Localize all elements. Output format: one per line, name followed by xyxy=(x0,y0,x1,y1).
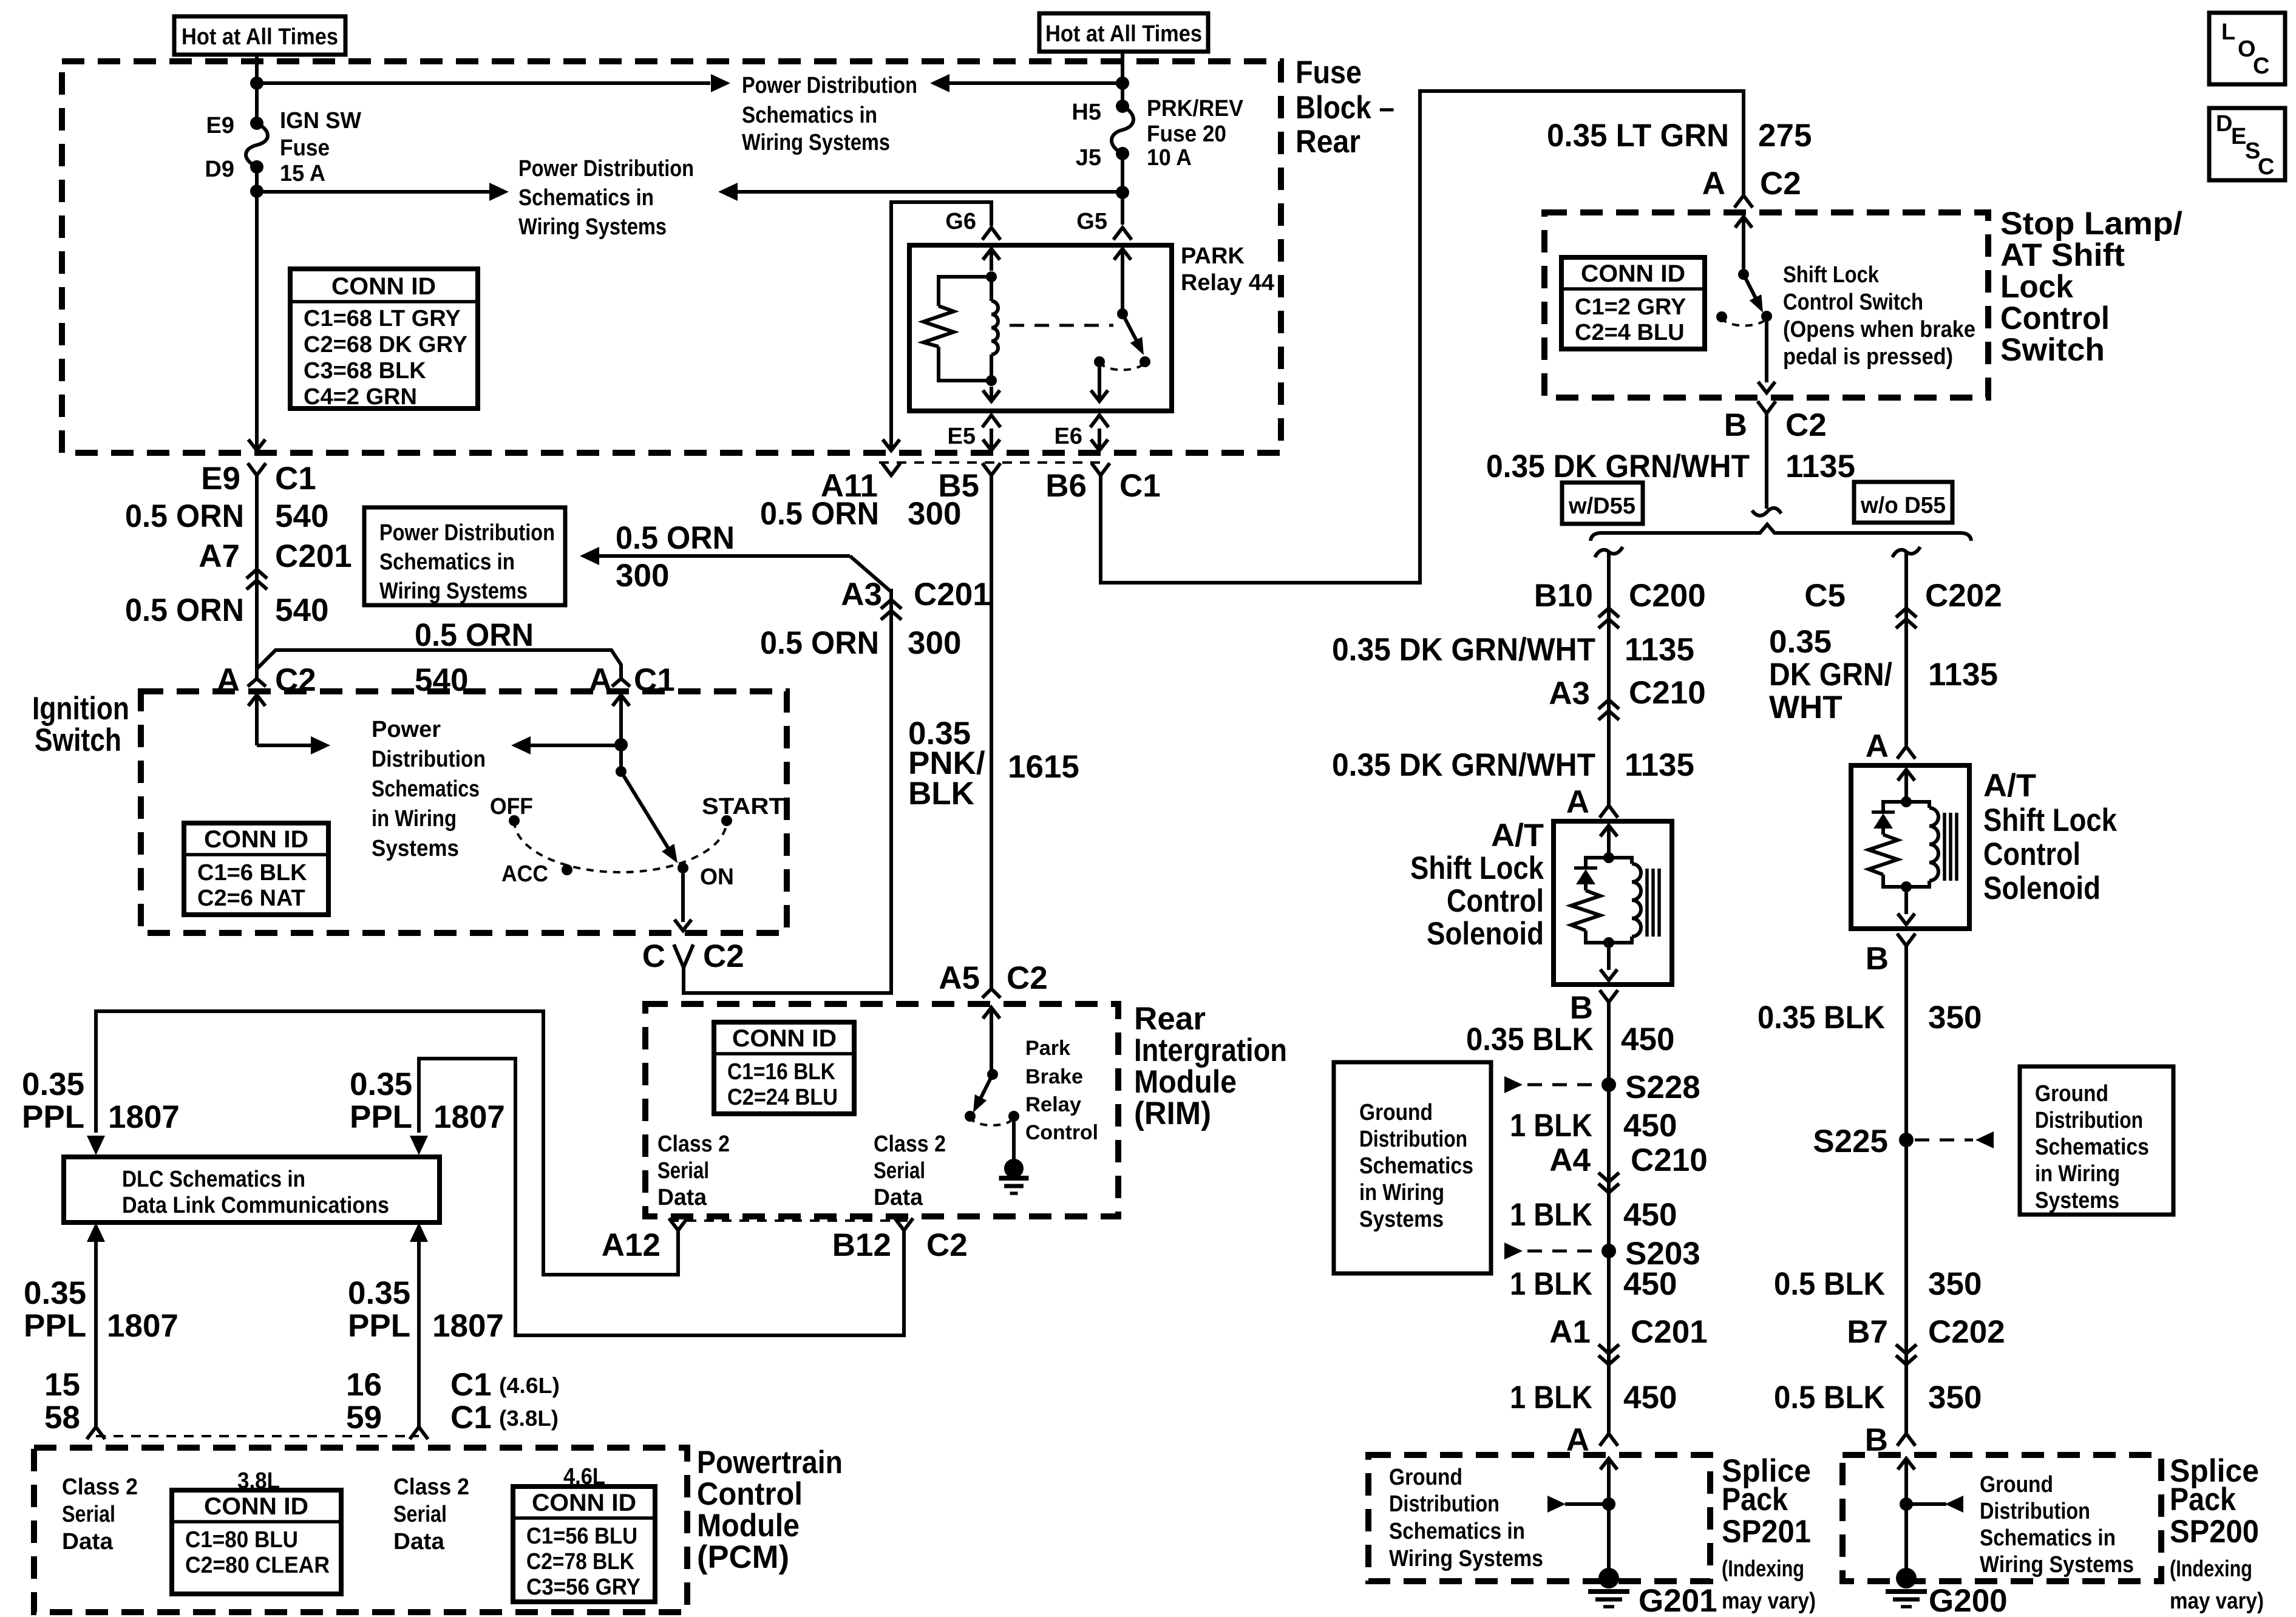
in-line connector C201 terminal A3 (double chevron) xyxy=(881,600,902,609)
svg-text:PPL: PPL xyxy=(24,1308,86,1344)
svg-text:Distribution: Distribution xyxy=(1389,1491,1500,1517)
relay coil winding xyxy=(990,277,993,301)
ignition contact ACC xyxy=(562,864,572,875)
wire 0.35 PNK/BLK 1615 from B5 to RIM A5 xyxy=(990,475,993,989)
svg-text:58: 58 xyxy=(44,1400,80,1436)
relay coil bottom node xyxy=(986,375,997,386)
node junction inside SP200 xyxy=(1900,1497,1913,1511)
svg-text:A: A xyxy=(589,662,612,698)
svg-text:Wiring Systems: Wiring Systems xyxy=(379,578,528,604)
svg-text:C1: C1 xyxy=(450,1400,492,1436)
arrow pin A into SP201 xyxy=(1600,1459,1617,1470)
node junction above G5 xyxy=(1116,186,1129,199)
wire class 2 serial data PCM pin 16/59 to DLC xyxy=(417,1241,421,1427)
connector fork B below right solenoid xyxy=(1897,934,1915,946)
svg-text:pedal is pressed): pedal is pressed) xyxy=(1783,344,1953,370)
svg-text:(4.6L): (4.6L) xyxy=(499,1373,560,1398)
arrowhead left from PRK/REV feed into Power Distribution note xyxy=(930,74,949,92)
svg-text:C3=68 BLK: C3=68 BLK xyxy=(304,358,426,384)
svg-text:C: C xyxy=(642,938,665,974)
svg-text:Pack: Pack xyxy=(1722,1482,1788,1517)
wire branch to relay pin G6 xyxy=(891,202,991,226)
splice pack SP200 dashed box xyxy=(1843,1455,2161,1581)
solenoid A/T shift lock (w/o D55) input pin arrow xyxy=(1898,770,1915,781)
svg-text:Lock: Lock xyxy=(2000,269,2074,305)
arrowhead into DLC box (A12 wire) xyxy=(87,1136,105,1155)
svg-text:A5: A5 xyxy=(939,960,980,996)
wire w/o D55 branch to C202 xyxy=(1904,552,1908,745)
svg-text:0.35: 0.35 xyxy=(22,1066,84,1102)
ignition switch pivot xyxy=(616,766,627,777)
right Ground Distribution reference box xyxy=(2020,1066,2173,1215)
svg-text:0.5 ORN: 0.5 ORN xyxy=(760,496,879,532)
solenoid A/T shift lock (w/D55) coil winding xyxy=(1609,858,1632,864)
svg-text:C2: C2 xyxy=(926,1227,968,1263)
park brake switch dashed arc xyxy=(970,1116,1014,1125)
svg-text:Control: Control xyxy=(1447,883,1544,919)
svg-text:Serial: Serial xyxy=(657,1158,709,1184)
arrowhead left into boxed Power Distribution note xyxy=(580,547,599,565)
ignition contact START xyxy=(721,815,732,826)
connector fork B/C2 below stop lamp switch xyxy=(1758,401,1776,413)
svg-text:0.5 ORN: 0.5 ORN xyxy=(415,617,534,653)
svg-text:w/o D55: w/o D55 xyxy=(1860,493,1946,518)
svg-text:C1=68 LT GRY: C1=68 LT GRY xyxy=(304,306,461,331)
svg-text:E5: E5 xyxy=(948,424,976,449)
svg-text:Power Distribution: Power Distribution xyxy=(379,520,555,546)
connector fork A11 xyxy=(882,463,900,475)
svg-text:C1: C1 xyxy=(450,1367,492,1403)
svg-text:Power Distribution: Power Distribution xyxy=(742,73,917,98)
connector fork PCM pin 15/58 xyxy=(87,1427,105,1439)
stop lamp switch dashed box xyxy=(1544,212,1988,398)
ground symbol (RIM) xyxy=(999,1176,1029,1181)
stop lamp switch pivot xyxy=(1738,269,1749,280)
svg-text:Switch: Switch xyxy=(35,722,121,758)
svg-text:C1: C1 xyxy=(634,662,675,698)
svg-text:DK GRN/: DK GRN/ xyxy=(1769,657,1892,693)
arrowhead right into ignition Power Distribution note xyxy=(311,736,330,754)
arrowhead right into mid Power Distribution note xyxy=(489,183,509,201)
svg-text:C2: C2 xyxy=(703,938,744,974)
svg-text:10 A: 10 A xyxy=(1147,145,1192,171)
relay switch output wire and arrow to E6 xyxy=(1098,367,1101,400)
svg-text:C201: C201 xyxy=(1631,1314,1708,1350)
fuse PRK/REV Fuse 20 10A between H5 and J5 xyxy=(1116,100,1129,113)
svg-text:300: 300 xyxy=(616,558,669,594)
stop lamp contact (left) xyxy=(1716,311,1727,322)
svg-text:1615: 1615 xyxy=(1008,749,1079,785)
svg-text:Data: Data xyxy=(874,1185,923,1210)
relay coil output arrow to E5 xyxy=(990,387,993,400)
svg-text:C1=16 BLK: C1=16 BLK xyxy=(727,1059,835,1085)
svg-text:B10: B10 xyxy=(1534,578,1593,614)
svg-text:Relay: Relay xyxy=(1025,1093,1081,1116)
wire 0.35 BLK 350 from right solenoid to SP200 xyxy=(1904,946,1908,1434)
svg-text:0.5 ORN: 0.5 ORN xyxy=(616,520,735,556)
svg-text:Class 2: Class 2 xyxy=(393,1474,469,1500)
solenoid A/T shift lock (w/D55) diode xyxy=(1586,858,1609,868)
svg-text:Systems: Systems xyxy=(1359,1207,1444,1232)
svg-text:CONN ID: CONN ID xyxy=(204,1493,308,1520)
svg-text:Schematics in: Schematics in xyxy=(518,185,654,211)
svg-text:Systems: Systems xyxy=(2035,1188,2119,1213)
svg-text:Data: Data xyxy=(393,1529,445,1554)
solenoid A/T shift lock (w/D55) box xyxy=(1554,821,1672,985)
solenoid A/T shift lock (w/o D55) diode xyxy=(1883,802,1906,812)
relay switch throw dashed arc xyxy=(1099,362,1145,370)
ground terminal dot G201 xyxy=(1598,1568,1619,1588)
svg-text:C1=6 BLK: C1=6 BLK xyxy=(197,860,307,886)
svg-text:G201: G201 xyxy=(1639,1583,1717,1617)
svg-text:DLC Schematics in: DLC Schematics in xyxy=(122,1167,305,1192)
arrow pin A into ignition switch xyxy=(248,695,265,706)
solenoid A/T shift lock (w/o D55) bottom node xyxy=(1901,881,1912,892)
svg-text:350: 350 xyxy=(1928,1000,1982,1036)
CONN ID table of fuse block xyxy=(290,269,478,408)
wire class 2 serial data from A12 to DLC xyxy=(96,1011,678,1275)
solenoid A/T shift lock (w/o D55) output arrow xyxy=(1904,892,1908,914)
svg-text:Power: Power xyxy=(372,717,441,742)
arrowhead of S225 stub xyxy=(1975,1131,1994,1148)
svg-text:0.35: 0.35 xyxy=(24,1275,86,1311)
wire from ON contact down to C/C2 xyxy=(681,873,685,922)
relay switch contact (normally open) xyxy=(1140,356,1150,367)
svg-text:Wiring Systems: Wiring Systems xyxy=(742,130,890,155)
svg-text:C201: C201 xyxy=(275,538,352,574)
wire from fuse D9 down to fuse block exit xyxy=(255,167,259,448)
svg-text:SP200: SP200 xyxy=(2170,1514,2259,1550)
dashed stub to S203 xyxy=(1527,1250,1600,1253)
svg-text:350: 350 xyxy=(1928,1380,1982,1415)
connector fork B12 below RIM xyxy=(895,1218,913,1230)
svg-text:0.35 DK GRN/WHT: 0.35 DK GRN/WHT xyxy=(1486,449,1750,484)
svg-text:in Wiring: in Wiring xyxy=(1359,1180,1444,1205)
svg-text:B6: B6 xyxy=(1045,468,1087,504)
svg-text:C4=2 GRN: C4=2 GRN xyxy=(304,384,417,410)
wire from G5 junction to mid Power Distribution note xyxy=(738,190,1123,194)
svg-text:E: E xyxy=(2231,124,2246,149)
svg-text:450: 450 xyxy=(1623,1197,1677,1233)
svg-text:Shift Lock: Shift Lock xyxy=(1410,850,1544,886)
option split brace xyxy=(1591,524,1971,541)
svg-text:1135: 1135 xyxy=(1928,657,1998,693)
svg-text:H5: H5 xyxy=(1072,100,1101,125)
svg-text:16: 16 xyxy=(346,1367,382,1403)
svg-text:Power Distribution: Power Distribution xyxy=(518,156,694,181)
left Ground Distribution reference box xyxy=(1334,1062,1491,1273)
svg-text:Wiring Systems: Wiring Systems xyxy=(518,214,667,240)
solenoid A/T shift lock (w/o D55) top node xyxy=(1901,796,1912,807)
connector line C2 below RIM xyxy=(669,1219,913,1222)
arrowhead up into DLC (left PCM wire) xyxy=(87,1222,105,1242)
svg-text:A: A xyxy=(1866,728,1889,764)
solenoid A/T shift lock (w/D55) output arrow xyxy=(1607,948,1611,970)
arrow pin E5 at fuse block exit xyxy=(990,429,993,449)
svg-text:may vary): may vary) xyxy=(2170,1588,2264,1614)
svg-text:PARK: PARK xyxy=(1181,243,1245,269)
svg-text:E9: E9 xyxy=(201,461,240,497)
svg-text:C2=80 CLEAR: C2=80 CLEAR xyxy=(185,1553,330,1578)
svg-text:S228: S228 xyxy=(1625,1070,1700,1105)
svg-text:59: 59 xyxy=(346,1400,382,1436)
svg-text:275: 275 xyxy=(1758,118,1812,154)
svg-text:Hot at All Times: Hot at All Times xyxy=(182,24,338,50)
w/D55 branch start hook xyxy=(1595,547,1623,557)
connector fork G6 xyxy=(982,228,1000,240)
svg-text:Wiring Systems: Wiring Systems xyxy=(1389,1546,1543,1571)
svg-text:1 BLK: 1 BLK xyxy=(1510,1108,1592,1144)
svg-text:A3: A3 xyxy=(841,577,882,612)
svg-text:Schematics: Schematics xyxy=(372,776,480,802)
DESC index box xyxy=(2209,108,2285,180)
solenoid A/T shift lock (w/o D55) coil winding xyxy=(1906,802,1929,808)
svg-text:Shift Lock: Shift Lock xyxy=(1783,262,1880,288)
arrow pin A5 into RIM xyxy=(983,1008,1000,1019)
boxed reference Power Distribution Schematics in Wiring Systems xyxy=(364,507,565,605)
svg-text:0.5 BLK: 0.5 BLK xyxy=(1774,1380,1885,1415)
splice S225 xyxy=(1899,1133,1914,1147)
svg-text:C: C xyxy=(2258,154,2274,180)
svg-text:Control: Control xyxy=(697,1476,803,1512)
connector fork G5 xyxy=(1113,228,1132,240)
svg-text:0.5 BLK: 0.5 BLK xyxy=(1774,1266,1885,1302)
svg-text:Serial: Serial xyxy=(393,1502,447,1527)
wire 0.35 DK GRN/WHT 1135 down to option split xyxy=(1765,413,1768,509)
svg-text:C202: C202 xyxy=(1925,578,2002,614)
svg-text:C2: C2 xyxy=(1007,960,1048,996)
relay PARK Relay 44 box xyxy=(909,245,1172,411)
svg-text:Schematics in: Schematics in xyxy=(1389,1519,1525,1544)
ground symbol G201 xyxy=(1588,1589,1629,1594)
svg-text:SP201: SP201 xyxy=(1722,1514,1811,1550)
svg-text:C1=80 BLU: C1=80 BLU xyxy=(185,1527,298,1553)
svg-text:Module: Module xyxy=(1134,1064,1237,1100)
svg-text:450: 450 xyxy=(1621,1022,1674,1057)
svg-text:ON: ON xyxy=(700,864,734,890)
arrow pin B into SP200 xyxy=(1898,1459,1915,1470)
svg-text:0.35 BLK: 0.35 BLK xyxy=(1758,1000,1885,1036)
ignition contact OFF xyxy=(509,815,520,826)
fuse block dashed enclosure (Fuse Block - Rear) xyxy=(62,61,1281,453)
svg-text:Solenoid: Solenoid xyxy=(1427,916,1544,952)
svg-text:B7: B7 xyxy=(1847,1314,1888,1350)
wire from G6 branch down to fuse block exit A11 xyxy=(889,226,893,448)
wire from stop lamp output to B/C2 xyxy=(1765,322,1768,382)
svg-text:C2=68 DK GRY: C2=68 DK GRY xyxy=(304,332,467,358)
node junction below IGN SW fuse xyxy=(250,185,263,198)
svg-text:350: 350 xyxy=(1928,1266,1982,1302)
svg-text:in Wiring: in Wiring xyxy=(2035,1161,2120,1187)
relay pin arrow G6 (coil feed) xyxy=(983,249,1000,260)
svg-text:Schematics: Schematics xyxy=(2035,1134,2149,1160)
svg-text:0.35 DK GRN/WHT: 0.35 DK GRN/WHT xyxy=(1332,747,1595,783)
svg-text:CONN ID: CONN ID xyxy=(1581,260,1685,287)
svg-text:A: A xyxy=(1702,166,1725,202)
node junction at top of PRK/REV fuse xyxy=(1116,76,1129,90)
svg-text:G5: G5 xyxy=(1076,209,1107,234)
svg-text:E9: E9 xyxy=(206,113,234,138)
svg-text:0.35 BLK: 0.35 BLK xyxy=(1466,1022,1594,1057)
svg-text:Control: Control xyxy=(1983,836,2080,872)
svg-text:START: START xyxy=(702,794,784,819)
svg-text:C3=56 GRY: C3=56 GRY xyxy=(526,1575,640,1600)
connector fork PCM pin 16/59 xyxy=(410,1427,428,1439)
svg-text:C1=56 BLU: C1=56 BLU xyxy=(526,1524,637,1549)
relay actuation dashed link coil to switch xyxy=(1010,324,1113,327)
svg-text:C1=2 GRY: C1=2 GRY xyxy=(1575,294,1686,320)
w/D55 option box xyxy=(1562,483,1643,524)
svg-text:Brake: Brake xyxy=(1025,1065,1083,1088)
svg-text:1135: 1135 xyxy=(1785,449,1855,484)
svg-text:Ignition: Ignition xyxy=(32,691,129,727)
solenoid A/T shift lock (w/D55) core bars xyxy=(1645,869,1649,937)
svg-text:C2=24 BLU: C2=24 BLU xyxy=(727,1085,838,1110)
wire to Power Distribution reference (top left) xyxy=(257,81,710,85)
svg-text:C2=78 BLK: C2=78 BLK xyxy=(526,1549,634,1575)
svg-text:Distribution: Distribution xyxy=(372,747,486,772)
svg-text:1807: 1807 xyxy=(108,1099,180,1135)
svg-text:540: 540 xyxy=(275,498,328,534)
relay coil top node xyxy=(986,271,997,282)
svg-text:OFF: OFF xyxy=(490,794,533,819)
in-line connector C202 terminal B7 (double chevron) xyxy=(1896,1344,1917,1354)
arrow pin A (C1) into ignition switch xyxy=(613,695,630,706)
svg-text:D: D xyxy=(2216,111,2232,137)
stop lamp contact (right, output) xyxy=(1761,311,1772,322)
PCM dashed box (Powertrain Control Module) xyxy=(34,1448,687,1612)
wire from fuse J5 down to G5 xyxy=(1121,154,1124,225)
svg-text:1135: 1135 xyxy=(1625,747,1694,783)
connector fork B5 xyxy=(982,463,1000,475)
arrowhead down at fuse block exit (E9 wire) xyxy=(248,439,265,450)
internal ground dot (RIM) xyxy=(1004,1159,1024,1178)
park brake contact (left) xyxy=(965,1111,976,1122)
svg-text:Data: Data xyxy=(62,1529,114,1554)
svg-text:0.5 ORN: 0.5 ORN xyxy=(125,592,244,628)
connector fork B below left solenoid xyxy=(1600,990,1618,1002)
CONN ID table of PCM (3.8L) xyxy=(172,1490,341,1594)
svg-text:A7: A7 xyxy=(199,538,240,574)
svg-text:A/T: A/T xyxy=(1491,818,1544,853)
svg-text:Distribution: Distribution xyxy=(2035,1108,2143,1133)
svg-text:1807: 1807 xyxy=(433,1099,505,1135)
svg-text:C: C xyxy=(2253,53,2269,79)
dashed stub to S228 xyxy=(1527,1083,1600,1086)
ignition switch blade (to ON) xyxy=(621,771,671,853)
arrowhead into DLC box (B12 wire) xyxy=(410,1136,428,1155)
svg-text:450: 450 xyxy=(1623,1266,1677,1302)
ignition switch dashed box xyxy=(141,691,787,933)
svg-text:450: 450 xyxy=(1623,1380,1677,1415)
arrowhead down at fuse block exit (A11 wire) xyxy=(883,439,900,450)
svg-text:1 BLK: 1 BLK xyxy=(1510,1197,1592,1233)
svg-text:Control: Control xyxy=(1025,1121,1098,1144)
svg-text:C2=6 NAT: C2=6 NAT xyxy=(197,886,305,911)
svg-text:Serial: Serial xyxy=(62,1502,115,1527)
relay switch contact (common to E6) xyxy=(1094,356,1105,367)
fuse IGN SW 15A between E9 and D9 xyxy=(250,117,263,130)
connector fork A at right solenoid xyxy=(1897,747,1915,759)
svg-text:300: 300 xyxy=(908,496,961,532)
svg-text:Class 2: Class 2 xyxy=(62,1474,138,1500)
svg-text:Ground: Ground xyxy=(1389,1465,1462,1490)
svg-text:CONN ID: CONN ID xyxy=(331,273,436,300)
relay switch pin arrow G5 xyxy=(1114,249,1131,260)
svg-text:0.35 DK GRN/WHT: 0.35 DK GRN/WHT xyxy=(1332,632,1595,668)
w/o D55 option box xyxy=(1854,482,1952,523)
connector fork A at SP201 xyxy=(1600,1434,1618,1446)
svg-text:C1: C1 xyxy=(1119,468,1161,504)
svg-text:0.35: 0.35 xyxy=(350,1066,412,1102)
svg-text:Rear: Rear xyxy=(1134,1001,1206,1037)
wire class 2 serial data from B12 to DLC xyxy=(419,1059,904,1335)
svg-text:A3: A3 xyxy=(1549,676,1590,711)
arrowhead left from G5 feed into mid Power Distribution note xyxy=(718,183,738,201)
svg-text:Ground: Ground xyxy=(1980,1472,2053,1497)
svg-text:300: 300 xyxy=(908,625,961,661)
arrowhead of S228 stub xyxy=(1504,1076,1523,1093)
relay socket fork E5 xyxy=(982,415,1000,427)
svg-text:C5: C5 xyxy=(1804,578,1846,614)
RIM dashed box (Rear Intergration Module) xyxy=(645,1004,1118,1216)
svg-text:A/T: A/T xyxy=(1983,768,2036,804)
svg-text:0.5 ORN: 0.5 ORN xyxy=(760,625,879,661)
node junction at top of IGN SW fuse xyxy=(250,76,263,90)
relay switch pivot xyxy=(1117,308,1128,319)
svg-text:CONN ID: CONN ID xyxy=(732,1025,837,1052)
svg-text:C210: C210 xyxy=(1631,1142,1708,1178)
connector fork A5/C2 at RIM xyxy=(982,989,1000,998)
in-line connector C202 terminal C5 (double chevron) xyxy=(1896,608,1917,617)
Hot at All Times box (left) xyxy=(174,16,345,55)
svg-text:A: A xyxy=(1566,784,1589,820)
svg-text:Schematics in: Schematics in xyxy=(1980,1525,2116,1551)
connector fork C/C2 below ignition switch xyxy=(674,944,693,968)
svg-text:IGN SW: IGN SW xyxy=(280,108,361,134)
svg-text:PPL: PPL xyxy=(350,1099,412,1135)
svg-text:1 BLK: 1 BLK xyxy=(1510,1380,1592,1415)
DLC Schematics reference box xyxy=(64,1157,440,1222)
svg-text:(Opens when brake: (Opens when brake xyxy=(1783,317,1975,342)
w/o D55 branch start hook xyxy=(1892,547,1920,557)
in-line connector C200 terminal B10 (double chevron) xyxy=(1598,608,1619,617)
connector fork E9/C1 below fuse block xyxy=(248,463,266,475)
svg-text:Powertrain: Powertrain xyxy=(697,1445,843,1480)
solenoid A/T shift lock (w/o D55) box xyxy=(1851,765,1969,929)
wire from left Hot at All Times into fuse block xyxy=(255,55,259,120)
svg-text:Ground: Ground xyxy=(2035,1081,2108,1107)
svg-text:w/D55: w/D55 xyxy=(1568,493,1635,519)
svg-text:540: 540 xyxy=(415,662,468,698)
svg-text:WHT: WHT xyxy=(1769,690,1843,725)
arrowhead of S203 stub xyxy=(1504,1242,1523,1259)
svg-text:(PCM): (PCM) xyxy=(697,1539,789,1575)
svg-text:Module: Module xyxy=(697,1508,800,1544)
svg-text:B: B xyxy=(1866,941,1889,977)
in-line connector C201 terminal A1 (double chevron) xyxy=(1598,1344,1619,1354)
node junction on ignition feed xyxy=(614,738,628,751)
wire 0.35 BLK 450 from left solenoid to SP201 xyxy=(1607,1002,1611,1434)
connector fork A/C1 at ignition switch xyxy=(612,679,630,686)
svg-text:G200: G200 xyxy=(1929,1583,2008,1617)
svg-text:G6: G6 xyxy=(945,209,976,234)
relay switch blade xyxy=(1123,314,1136,341)
svg-text:Block –: Block – xyxy=(1296,90,1394,126)
svg-text:Class 2: Class 2 xyxy=(657,1131,730,1157)
connector fork B at SP200 xyxy=(1897,1434,1915,1446)
svg-text:C2: C2 xyxy=(1760,166,1801,202)
